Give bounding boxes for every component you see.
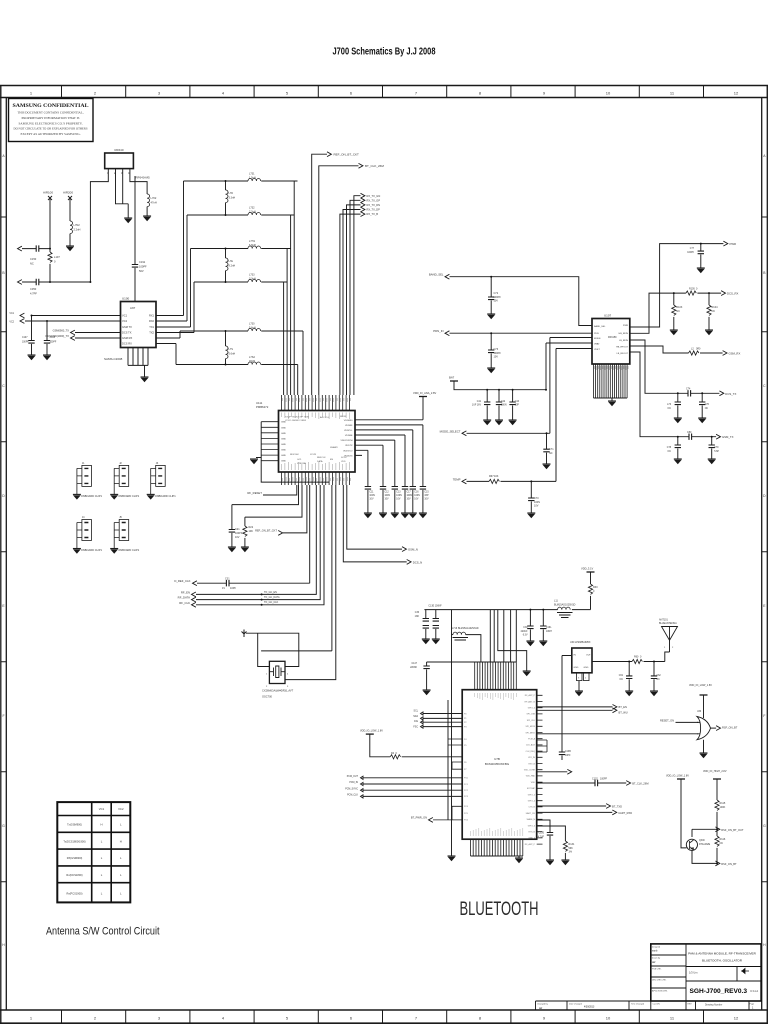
svg-text:SPI_MISO: SPI_MISO [526, 732, 536, 734]
svg-text:FSC: FSC [413, 727, 418, 729]
svg-text:NC: NC [668, 408, 672, 410]
svg-text:SPI_MOSI: SPI_MOSI [526, 726, 536, 728]
svg-text:DO NOT CIRCULATE TO OR EXPLAIN: DO NOT CIRCULATE TO OR EXPLAINED FOR OTH… [14, 127, 88, 131]
crystal circuit loop [246, 633, 299, 666]
frame row letters [2, 154, 5, 947]
wire rail 2 drop to transceiver [290, 215, 292, 395]
svg-text:Rx(PCS1900): Rx(PCS1900) [66, 892, 82, 896]
svg-text:HB_RFOUT: HB_RFOUT [616, 347, 628, 349]
frame right border [761, 98, 763, 1011]
capacitor C41 [486, 390, 488, 402]
antenna ANT101 [662, 627, 678, 641]
svg-text:TO_GC_EN: TO_GC_EN [264, 591, 277, 594]
svg-text:RF_ANT_P: RF_ANT_P [525, 694, 536, 697]
connector chevrons VC1 VC2 [20, 313, 24, 318]
svg-text:PROPRIETARY INFORMATION THAT I: PROPRIETARY INFORMATION THAT IS [22, 116, 80, 120]
svg-text:RF640: RF640 [114, 148, 123, 152]
svg-text:BLM15AG102SN1D: BLM15AG102SN1D [458, 627, 479, 630]
svg-text:10NH: 10NH [546, 631, 552, 633]
svg-text:2.2nH: 2.2nH [249, 211, 256, 214]
capacitor C15 [422, 425, 424, 487]
svg-text:10V: 10V [385, 499, 390, 501]
svg-text:SDA: SDA [413, 715, 418, 718]
svg-text:10V: 10V [396, 499, 401, 501]
svg-text:0R0: 0R0 [696, 348, 701, 351]
title block revision mark [741, 969, 749, 974]
transceiver center micro text [285, 416, 347, 465]
svg-text:2.2nH: 2.2nH [74, 228, 81, 232]
svg-text:PDN: PDN [594, 333, 599, 335]
svg-text:C61: C61 [619, 675, 624, 677]
svg-text:drawn by: drawn by [652, 958, 660, 960]
transceiver top pin stubs [282, 395, 350, 411]
svg-text:BT_WU: BT_WU [619, 711, 628, 715]
test clip J2 [114, 465, 129, 494]
svg-text:NC: NC [712, 310, 716, 313]
svg-text:U107: U107 [604, 314, 612, 318]
wire PWR output [630, 244, 724, 327]
info row [536, 1001, 762, 1010]
svg-text:AGC PLL: AGC PLL [320, 416, 330, 419]
BT left pin wires PCM [363, 778, 462, 797]
frame top ruler strip [0, 86, 768, 98]
svg-text:10V: 10V [494, 300, 499, 303]
svg-text:10V: 10V [235, 536, 240, 539]
svg-text:100PF: 100PF [50, 342, 57, 344]
gate output RSF_ON_BT [711, 727, 717, 729]
svg-text:DAI: DAI [414, 720, 418, 723]
svg-text:10V: 10V [494, 356, 499, 359]
capacitor C191 [132, 265, 138, 268]
transceiver left pin stubs [261, 422, 278, 461]
capacitor C21 shunt [232, 485, 299, 530]
inductor L11 [558, 607, 571, 610]
svg-text:10PF: 10PF [230, 587, 236, 590]
svg-text:R103: R103 [676, 306, 683, 309]
svg-text:F: F [763, 714, 765, 718]
svg-text:VDD: VDD [341, 461, 346, 463]
wire DCS_RX output [630, 293, 721, 333]
svg-text:50V: 50V [139, 269, 144, 273]
capacitor C70 [530, 481, 532, 498]
ground under clip J4 [73, 549, 81, 554]
svg-text:C147: C147 [412, 663, 418, 665]
power VDD_IO_HIGH_2.8V [713, 778, 721, 780]
svg-text:VDD_PAD: VDD_PAD [526, 775, 536, 778]
svg-text:C17: C17 [407, 492, 412, 494]
svg-text:10: 10 [606, 91, 611, 96]
svg-text:Tx(DCS1800/1900): Tx(DCS1800/1900) [63, 839, 85, 843]
svg-text:DCS_TX: DCS_TX [725, 392, 736, 396]
svg-text:DCS_RX: DCS_RX [727, 292, 738, 296]
ground left bus [250, 459, 258, 464]
svg-text:VBAT: VBAT [594, 343, 600, 346]
transceiver bottom pin stubs [282, 472, 350, 485]
svg-text:ONBOARD CLIP1: ONBOARD CLIP1 [81, 494, 103, 498]
svg-text:RFON: RFON [340, 416, 347, 418]
wire rail 5 drop to transceiver [302, 331, 304, 395]
svg-text:SMARTi: SMARTi [330, 446, 339, 449]
power rail VDD_IO_ANA_2.8V [419, 396, 427, 398]
svg-text:R115: R115 [720, 802, 726, 805]
antenna feed AIR100 [48, 196, 52, 249]
svg-text:C19L: C19L [546, 627, 552, 629]
svg-text:L716: L716 [452, 628, 458, 630]
svg-text:C43: C43 [515, 401, 520, 403]
svg-text:VDET: VDET [594, 349, 600, 351]
svg-text:NC: NC [549, 452, 553, 455]
svg-text:VDD_IO_ANA_2.8V: VDD_IO_ANA_2.8V [413, 391, 436, 395]
svg-text:CLK_REQ: CLK_REQ [526, 751, 536, 753]
wire ladder left verticals [176, 181, 194, 365]
gate input RESET_ON [676, 721, 699, 723]
svg-text:1.5nH: 1.5nH [249, 177, 256, 180]
svg-text:RX_TX_GN: RX_TX_GN [367, 194, 381, 198]
power BAT rail [450, 380, 458, 382]
resistor R30 [588, 584, 592, 594]
svg-text:C74: C74 [686, 388, 691, 391]
transceiver right pin wires [355, 420, 423, 456]
svg-text:C13E 100NF: C13E 100NF [428, 606, 442, 608]
svg-text:GND_2: GND_2 [528, 838, 536, 840]
svg-text:GSM0900_TX: GSM0900_TX [53, 329, 70, 333]
svg-text:RX_TX_DN: RX_TX_DN [367, 203, 381, 207]
svg-text:100PF: 100PF [600, 778, 608, 781]
BT left pin wires group1 [423, 714, 462, 727]
svg-text:VDDSYNTH: VDDSYNTH [340, 440, 352, 442]
svg-text:VC2: VC2 [122, 319, 128, 323]
svg-text:XCVR: XCVR [310, 454, 316, 456]
svg-text:VC2: VC2 [9, 321, 14, 324]
svg-text:220NF: 220NF [410, 667, 417, 669]
svg-text:PCM_IN: PCM_IN [349, 782, 358, 784]
svg-text:GND: GND [281, 427, 286, 429]
svg-text:10PF: 10PF [565, 755, 571, 757]
svg-text:C350: C350 [30, 287, 37, 291]
svg-text:100PF: 100PF [687, 252, 694, 254]
svg-text:GPIO_0: GPIO_0 [528, 708, 536, 710]
svg-text:1/3 Um: 1/3 Um [689, 971, 697, 975]
svg-text:5.6nH: 5.6nH [249, 327, 256, 330]
svg-text:MODE_SELECT: MODE_SELECT [440, 429, 461, 433]
svg-text:GND: GND [281, 444, 286, 446]
svg-text:RX2: RX2 [149, 319, 155, 323]
svg-text:CTS_N: CTS_N [528, 807, 535, 809]
svg-text:C79: C79 [714, 447, 719, 449]
capacitor C30 [529, 610, 531, 626]
svg-text:10V: 10V [534, 505, 539, 508]
wire VBAT pin [546, 343, 592, 390]
wire bridge pins [537, 740, 547, 752]
svg-text:LB_RFIN: LB_RFIN [619, 340, 628, 342]
inductor L702 [147, 194, 150, 207]
svg-text:VC1: VC1 [99, 807, 105, 811]
inductor L732 [248, 213, 261, 216]
svg-text:6.3V: 6.3V [523, 635, 528, 637]
svg-text:GPIO_6: GPIO_6 [528, 825, 536, 827]
svg-text:33P: 33P [424, 495, 429, 497]
svg-text:L7N2: L7N2 [74, 223, 81, 227]
svg-text:220UF: 220UF [521, 631, 528, 633]
svg-text:ANT: ANT [130, 306, 136, 310]
svg-text:DTA143ZE: DTA143ZE [699, 843, 711, 846]
svg-text:Tx(GSM900): Tx(GSM900) [67, 823, 82, 827]
truth table antenna switch [57, 802, 130, 902]
svg-text:GND: GND [281, 433, 286, 435]
wire input net 2 [22, 281, 90, 283]
wire RSF_ON_BT bottom [692, 850, 717, 863]
svg-text:C12: C12 [385, 492, 390, 494]
svg-text:ONBOARD CLIP1: ONBOARD CLIP1 [81, 548, 103, 552]
transistor Q300 [686, 839, 697, 850]
svg-text:RF640-M5: RF640-M5 [136, 176, 151, 180]
wire RX TX bundle [354, 196, 361, 395]
svg-text:CX26M(GA&W#DR)5_AVT: CX26M(GA&W#DR)5_AVT [262, 689, 294, 693]
capacitor C350 [36, 279, 39, 285]
svg-text:NC: NC [705, 408, 709, 410]
svg-text:10K: 10K [494, 475, 499, 478]
svg-text:GND: GND [584, 667, 589, 669]
svg-text:RF_RESET: RF_RESET [247, 491, 262, 495]
capacitor C17 [404, 435, 406, 487]
svg-text:WAKE_N: WAKE_N [527, 818, 536, 821]
inductor L7D shunt [225, 181, 227, 190]
connector REF_ON_BT_CKT [327, 152, 331, 157]
svg-text:RFICSM: RFICSM [290, 454, 299, 456]
svg-text:AIR100: AIR100 [43, 191, 53, 195]
inductor L7H1 [248, 246, 261, 249]
power VDD stem [587, 571, 595, 573]
svg-text:EN: EN [330, 459, 333, 461]
svg-text:PWR: PWR [730, 242, 737, 246]
svg-text:RSF_ON_BT: RSF_ON_BT [722, 726, 738, 730]
ground under C16 [409, 513, 417, 518]
svg-text:PCM_SYNC: PCM_SYNC [345, 788, 358, 790]
wire matching rail 5 [180, 330, 303, 332]
shunt capacitor C107 [31, 316, 33, 341]
svg-text:NC: NC [668, 451, 672, 453]
svg-text:VDD_IO_LOW_1.8V: VDD_IO_LOW_1.8V [666, 775, 689, 778]
svg-text:VC1: VC1 [9, 312, 14, 315]
svg-text:100PF: 100PF [139, 265, 147, 269]
svg-text:BLUEANTENNA: BLUEANTENNA [659, 622, 677, 625]
svg-text:GSM TX: GSM TX [122, 325, 132, 329]
svg-text:TX2: TX2 [149, 331, 154, 335]
svg-text:PMB6272: PMB6272 [256, 405, 269, 409]
ground under clip J5 [110, 549, 118, 554]
wire gate input [537, 733, 698, 735]
ground under C12 [379, 513, 387, 518]
svg-text:BT_CLK_26M: BT_CLK_26M [365, 164, 384, 168]
svg-text:C191: C191 [139, 260, 146, 264]
svg-text:RX1: RX1 [149, 314, 155, 318]
gate power [700, 694, 708, 696]
svg-text:DCS_N: DCS_N [413, 560, 422, 564]
ground under C11 [364, 513, 372, 518]
wire comb to ground right [498, 610, 527, 671]
svg-text:OSC700: OSC700 [262, 695, 273, 699]
power VDD_IO_LOW_1.8V left [366, 733, 374, 735]
svg-text:GND: GND [574, 667, 579, 669]
svg-text:8.2nH: 8.2nH [229, 265, 236, 268]
wire BAND_SEL [450, 277, 593, 326]
svg-text:3.3nH: 3.3nH [229, 197, 236, 200]
wire to antenna switch ANT pin [134, 176, 136, 302]
svg-text:100PF: 100PF [494, 296, 502, 299]
svg-text:C72: C72 [494, 292, 499, 295]
wire rail 1 drop to transceiver [293, 181, 295, 395]
inductor L35 [632, 659, 642, 663]
inductor L7N2 [70, 221, 73, 234]
svg-text:10V: 10V [424, 499, 429, 501]
svg-text:G: G [763, 824, 766, 828]
svg-text:R60: R60 [634, 656, 639, 659]
svg-text:ONBOARD CLIP1: ONBOARD CLIP1 [118, 548, 140, 552]
wire REF_ON_BT_CKT riser [312, 154, 327, 395]
capacitor C13F [435, 610, 437, 619]
wire RF_RESET [263, 485, 297, 495]
wire GSM_TX path [630, 352, 716, 437]
svg-text:VDD: VDD [531, 782, 536, 784]
svg-text:L11: L11 [554, 600, 558, 603]
wire VSS bus [451, 610, 453, 856]
ground under PA comb [608, 401, 616, 406]
svg-text:GSM_RX: GSM_RX [729, 352, 741, 356]
svg-text:U100: U100 [122, 297, 130, 301]
svg-text:REFCLK: REFCLK [317, 457, 326, 459]
capacitor C71 [546, 433, 548, 449]
svg-text:D_REF_CLK: D_REF_CLK [174, 579, 190, 583]
wire BT_TXD [537, 805, 606, 807]
svg-text:HB_RFIN: HB_RFIN [619, 333, 629, 335]
svg-text:F: F [2, 714, 4, 718]
svg-text:U33: U33 [697, 711, 702, 713]
svg-text:L7E: L7E [229, 260, 234, 263]
wire test chevron [537, 771, 568, 773]
BT right pin stubs [537, 695, 543, 844]
svg-text:R131: R131 [568, 843, 575, 846]
svg-text:Q300: Q300 [699, 840, 705, 842]
wire matching rail 4 [194, 281, 287, 283]
svg-text:GND: GND [281, 438, 286, 440]
svg-text:L7S: L7S [229, 348, 234, 351]
BT internal pin texture [471, 693, 523, 836]
svg-text:RSF_ON_BT: RSF_ON_BT [721, 862, 737, 866]
svg-text:APVD.SGN.CHK.: APVD.SGN.CHK. [652, 990, 668, 993]
svg-text:eunb: eunb [652, 950, 658, 953]
svg-text:3.3nH: 3.3nH [249, 278, 256, 281]
svg-text:RF3159: RF3159 [608, 336, 617, 339]
svg-text:U7B: U7B [494, 757, 500, 761]
resistor R116 [716, 829, 718, 836]
svg-text:Cat.CHL: Cat.CHL [653, 1003, 662, 1006]
svg-text:C76: C76 [705, 404, 710, 406]
svg-text:C36: C36 [415, 612, 420, 614]
svg-text:C108: C108 [50, 337, 56, 339]
svg-text:6.8nH: 6.8nH [249, 244, 256, 247]
svg-text:C42: C42 [501, 401, 506, 403]
svg-text:C150: C150 [539, 833, 545, 835]
antenna feed AIR200 [68, 196, 72, 221]
svg-text:SAMS-C2008: SAMS-C2008 [104, 357, 123, 361]
svg-text:C80: C80 [687, 431, 692, 434]
svg-text:def: def [652, 961, 656, 964]
svg-text:PCM_OUT: PCM_OUT [347, 776, 359, 778]
svg-text:LPO_IN: LPO_IN [528, 757, 536, 759]
svg-text:R30: R30 [593, 586, 598, 589]
svg-text:100N: 100N [407, 495, 413, 497]
wire input net 1 [22, 248, 50, 250]
svg-text:47nH: 47nH [151, 201, 157, 205]
wire comb feeders [490, 610, 516, 662]
svg-text:100N: 100N [501, 405, 507, 407]
svg-text:Changed by: Changed by [537, 1004, 548, 1006]
resistor R115 [715, 800, 719, 810]
svg-text:10V: 10V [414, 499, 419, 501]
capacitor C13 [394, 440, 396, 486]
svg-text:1UF 16V: 1UF 16V [472, 405, 482, 407]
svg-text:BCM2035KWFBG: BCM2035KWFBG [485, 762, 510, 766]
resistor R22 shunt [245, 485, 302, 526]
LDO U30 [572, 648, 592, 673]
svg-text:NC: NC [676, 310, 680, 313]
svg-text:C13: C13 [396, 492, 401, 494]
wire RSF_ON_BT_OUT [692, 829, 717, 837]
inductor L7E shunt [225, 249, 227, 259]
wire DCS_TX path [630, 340, 720, 393]
wire matching rail 3 [191, 248, 291, 250]
svg-text:C11: C11 [369, 492, 374, 494]
wire rail 3 drop to transceiver [286, 249, 288, 396]
switch bottom pins to ground [128, 348, 148, 378]
wire left ground bus [256, 422, 329, 482]
svg-text:C31: C31 [225, 578, 230, 581]
svg-text:UART_RX: UART_RX [526, 812, 536, 815]
svg-text:MODE: MODE [594, 338, 601, 340]
svg-text:AIR200: AIR200 [63, 191, 73, 195]
wire BT_CLK_26M riser [319, 166, 359, 395]
svg-text:C13B: C13B [565, 751, 571, 753]
svg-text:L733: L733 [249, 274, 255, 277]
svg-text:UART_RXD: UART_RXD [618, 811, 632, 815]
frame left border [1, 86, 7, 1024]
svg-text:SPI_CLK: SPI_CLK [527, 720, 536, 722]
svg-text:L7H1: L7H1 [249, 240, 256, 243]
svg-text:NC: NC [657, 679, 661, 681]
svg-text:RF_CLK: RF_CLK [179, 601, 190, 605]
svg-text:RX_TX_B: RX_TX_B [367, 212, 379, 216]
capacitor C72 [490, 277, 492, 297]
svg-text:NC: NC [30, 262, 34, 266]
svg-text:DCS TX: DCS TX [122, 331, 132, 335]
connector chevron net2 [18, 280, 22, 285]
svg-text:Antenna S/W Control Circuit: Antenna S/W Control Circuit [46, 926, 160, 938]
svg-text:J700 Schematics By J.J 2008: J700 Schematics By J.J 2008 [333, 46, 436, 58]
capacitor C77 [700, 244, 702, 252]
svg-text:CLK_AUX: CLK_AUX [526, 744, 536, 747]
svg-text:EXTCAP: EXTCAP [527, 787, 536, 790]
wire VDET pin [556, 349, 592, 482]
wire D_REF_CLK [197, 485, 310, 583]
ground under L702 [143, 216, 151, 221]
svg-text:VDD_3.1V: VDD_3.1V [581, 567, 594, 571]
svg-text:GND: GND [281, 422, 286, 424]
svg-text:4.7PF: 4.7PF [30, 292, 37, 296]
svg-text:designed: designed [652, 947, 660, 949]
svg-text:12: 12 [734, 91, 739, 96]
wire matching rail 1 [184, 180, 298, 182]
switch TX input wires [75, 333, 121, 339]
